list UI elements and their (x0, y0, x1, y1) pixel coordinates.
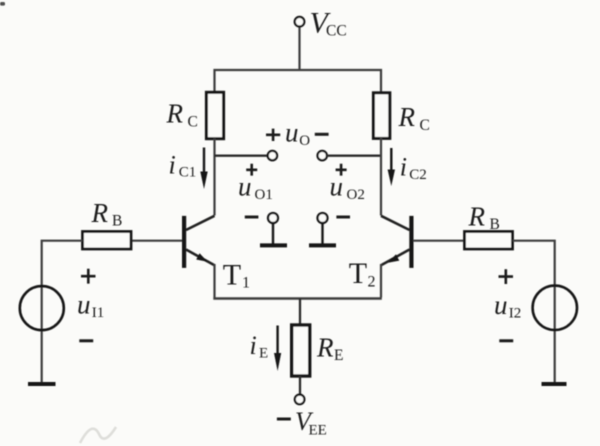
wire top rail (215, 70, 382, 94)
label RC right (398, 102, 430, 134)
ground left (28, 382, 56, 386)
label RB left (91, 198, 123, 230)
svg-text:u: u (330, 172, 344, 202)
svg-text:I2: I2 (509, 306, 522, 322)
minus sign uO (315, 133, 329, 136)
label T2 (349, 257, 376, 291)
plus sign uI2 (499, 269, 514, 284)
label uI1 (77, 290, 104, 322)
svg-text:i: i (400, 153, 407, 182)
current arrow iC1 (200, 148, 207, 190)
corner smudge (0, 2, 5, 6)
resistor RC left (206, 92, 223, 138)
output terminal uO1 (260, 213, 287, 245)
wire T2 emitter (380, 264, 382, 298)
minus sign uO2 (336, 216, 350, 219)
svg-text:E: E (334, 347, 343, 364)
node uO+ terminal (268, 151, 277, 160)
node uO- terminal (318, 151, 327, 160)
wire uO right (327, 155, 381, 157)
plus sign uI1 (81, 269, 96, 284)
minus sign uO1 (245, 216, 259, 219)
transistor T1 (182, 216, 215, 268)
label uI2 (494, 290, 521, 322)
svg-text:u: u (494, 290, 508, 320)
wire VCC stem (298, 27, 300, 71)
resistor RB right (465, 232, 513, 250)
plus sign uO1 (246, 164, 257, 176)
current arrow iC2 (388, 148, 395, 186)
wire RE stem top (299, 299, 301, 326)
svg-text:u: u (77, 290, 91, 320)
label -VEE (277, 407, 327, 439)
label RC left (166, 99, 198, 131)
wire uO left (215, 155, 268, 157)
source uI1 (20, 286, 64, 330)
svg-text:R: R (166, 99, 184, 129)
wire T1 emitter (213, 264, 215, 298)
minus sign uI2 (499, 339, 513, 342)
power terminal VCC (295, 17, 305, 27)
wire left input (42, 241, 83, 383)
label iC2 (400, 153, 427, 184)
resistor RC right (373, 93, 389, 139)
svg-text:B: B (112, 212, 122, 229)
svg-text:E: E (259, 345, 268, 361)
svg-text:B: B (490, 216, 500, 233)
svg-text:R: R (316, 333, 334, 363)
label uO2 (330, 172, 365, 204)
svg-text:C2: C2 (409, 167, 427, 183)
svg-text:R: R (91, 198, 109, 228)
plus sign uO (266, 129, 280, 141)
svg-text:1: 1 (242, 275, 250, 292)
svg-text:u: u (285, 117, 299, 147)
wire RE stem bottom (299, 376, 301, 395)
ground right (542, 382, 567, 386)
label iE (250, 331, 269, 361)
wire base T1 (132, 240, 183, 242)
svg-text:O: O (299, 133, 310, 149)
svg-text:C1: C1 (179, 165, 197, 181)
wire right collector (380, 138, 382, 216)
label uO1 (238, 172, 273, 204)
power terminal -VEE (295, 395, 305, 405)
svg-text:EE: EE (309, 422, 327, 438)
watermark (80, 427, 116, 443)
wire base T2 (413, 240, 465, 242)
wire left collector (213, 139, 215, 216)
plus sign uO2 (336, 164, 347, 176)
current arrow iE (274, 326, 281, 372)
svg-text:I1: I1 (92, 305, 105, 321)
svg-text:R: R (398, 102, 416, 132)
svg-text:u: u (238, 172, 252, 202)
svg-text:O1: O1 (255, 187, 273, 203)
svg-text:i: i (250, 331, 257, 360)
svg-text:CC: CC (326, 22, 347, 39)
svg-text:T: T (349, 257, 367, 290)
svg-text:C: C (420, 117, 430, 134)
label RE (316, 333, 343, 365)
transistor T2 (381, 216, 414, 268)
label uO (285, 117, 310, 149)
resistor RE (292, 325, 310, 376)
label T1 (223, 258, 250, 291)
label RB right (468, 202, 500, 234)
svg-text:O2: O2 (347, 187, 365, 203)
output terminal uO2 (309, 213, 336, 245)
label VCC (310, 6, 347, 39)
minus sign uI1 (79, 339, 93, 342)
resistor RB left (83, 232, 132, 250)
svg-text:T: T (223, 258, 241, 291)
svg-text:R: R (468, 202, 486, 232)
svg-text:i: i (169, 151, 176, 180)
svg-text:2: 2 (368, 274, 376, 291)
source uI2 (533, 286, 577, 330)
wire emitter rail (213, 297, 381, 300)
wire right input (513, 241, 555, 383)
label iC1 (169, 151, 197, 181)
svg-text:C: C (188, 114, 198, 131)
